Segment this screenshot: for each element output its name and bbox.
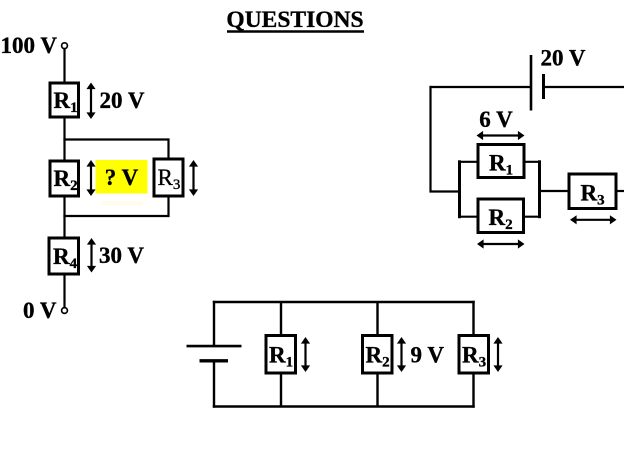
arrow beside R3 (circuit 3) <box>493 337 502 372</box>
resistor R1 (circuit 3) <box>266 336 296 374</box>
svg-text:QUESTIONS: QUESTIONS <box>226 7 363 33</box>
wire left rail lower (circuit 3) <box>213 361 215 408</box>
arrow for 9 V (circuit 3) <box>397 337 406 372</box>
title QUESTIONS <box>226 7 364 33</box>
wire R1 to R2 <box>63 117 65 161</box>
wire R4 to 0 V terminal <box>63 274 65 308</box>
junction bracket left (circuit 2) <box>458 160 461 218</box>
wire bottom rail (circuit 3) <box>213 405 475 407</box>
battery (circuit 2) long plate <box>530 55 533 111</box>
svg-text:30 V: 30 V <box>99 243 144 268</box>
arrow beside R1 (circuit 3) <box>301 337 310 372</box>
node 100 V terminal <box>62 43 68 49</box>
arrow beside R3 <box>189 160 198 196</box>
arrow for 20 V <box>86 83 95 120</box>
wire R3 branch bottom <box>63 196 168 217</box>
svg-text:20 V: 20 V <box>541 46 586 71</box>
battery (circuit 3) short plate <box>200 359 229 362</box>
svg-text:6 V: 6 V <box>479 107 513 132</box>
wire battery left and down <box>430 86 531 193</box>
wire left rail upper (circuit 3) <box>213 301 215 346</box>
node 0 V terminal <box>62 308 68 314</box>
resistor R3 (circuit 3) <box>459 336 489 374</box>
wire R2 to right bracket (circuit 2) <box>524 216 542 218</box>
resistor R3 (circuit 1) <box>154 159 183 196</box>
label ? V (yellow highlight) <box>96 160 148 205</box>
svg-text:100 V: 100 V <box>1 33 58 58</box>
resistor R4 (circuit 1) <box>49 238 79 274</box>
wire terminal to R1 <box>63 49 65 83</box>
wire R3 to edge (circuit 2) <box>616 190 624 192</box>
wire R2 branch (circuit 3) <box>376 302 378 407</box>
resistor R2 (circuit 1) <box>50 161 79 196</box>
wire R3 branch (circuit 3) <box>472 301 474 408</box>
label 30 V <box>99 243 144 268</box>
resistor R1 (circuit 1) <box>50 83 79 117</box>
wire junction to R3 branch top <box>63 138 168 159</box>
resistor R1 (circuit 2) <box>478 145 524 179</box>
arrow for 6 V (above R1 circuit 2) <box>477 131 525 140</box>
label 20 V (battery, circuit 2) <box>541 46 586 71</box>
wire battery right to edge <box>545 86 624 88</box>
wire to R2 (circuit 2) <box>460 216 479 218</box>
arrow for 30 V <box>87 238 96 273</box>
resistor R3 (circuit 2) <box>569 174 616 209</box>
wire R2 to R4 <box>63 196 65 238</box>
wire top rail (circuit 3) <box>213 301 475 303</box>
wire to R1 (circuit 2) <box>460 161 479 163</box>
arrow below R3 (circuit 2) <box>570 215 617 224</box>
label 0 V <box>23 298 57 323</box>
arrow for ? V <box>86 160 95 196</box>
wire R1 to right bracket (circuit 2) <box>524 161 541 163</box>
wire R1 branch (circuit 3) <box>280 302 282 407</box>
label 100 V <box>1 33 58 58</box>
battery (circuit 2) short plate <box>542 74 545 99</box>
label 20 V <box>100 88 145 113</box>
svg-text:20 V: 20 V <box>100 88 145 113</box>
wire bracket to R3 (circuit 2) <box>540 190 570 192</box>
label 9 V <box>411 343 445 368</box>
svg-text:9 V: 9 V <box>411 343 445 368</box>
svg-text:? V: ? V <box>105 165 139 190</box>
label 6 V <box>479 107 513 132</box>
junction bracket right (circuit 2) <box>538 160 541 218</box>
battery (circuit 3) long plate <box>187 345 242 348</box>
arrow below R2 (circuit 2) <box>477 239 525 248</box>
resistor R2 (circuit 3) <box>363 336 393 374</box>
resistor R2 (circuit 2) <box>478 199 524 233</box>
svg-text:0 V: 0 V <box>23 298 57 323</box>
